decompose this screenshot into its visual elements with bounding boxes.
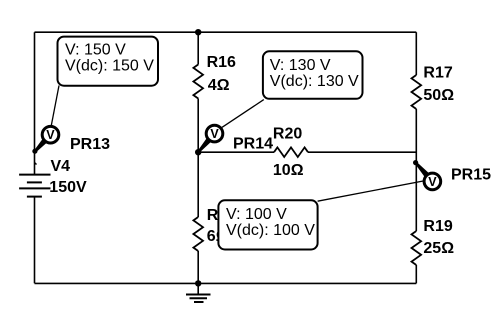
svg-text:V(dc): 150 V: V(dc): 150 V [65, 58, 154, 75]
svg-text:V: V [46, 128, 55, 142]
annotation box PR15 (100 V) [218, 200, 317, 249]
wire left vertical lower (battery to bottom) [34, 197, 36, 284]
junction top-center [195, 29, 201, 35]
svg-text:50Ω: 50Ω [423, 87, 454, 104]
svg-text:V: 150 V: V: 150 V [65, 42, 126, 59]
ground [186, 283, 211, 302]
svg-text:R16: R16 [207, 54, 236, 71]
svg-text:R17: R17 [423, 65, 452, 82]
junction bottom-center [195, 280, 201, 286]
wire left vertical upper (to battery) [34, 32, 36, 174]
resistor R19 [412, 231, 422, 265]
leader line to annotation box PR14 [222, 100, 264, 128]
svg-text:25Ω: 25Ω [423, 240, 454, 257]
svg-text:150V: 150V [49, 179, 87, 196]
wire middle vertical: R18 to bottom junction [197, 251, 199, 283]
leader line to annotation box PR13 [51, 86, 59, 126]
probe PR13 [32, 126, 59, 153]
svg-text:V(dc): 130 V: V(dc): 130 V [270, 73, 359, 90]
svg-text:R19: R19 [423, 218, 452, 235]
annotation box PR14 (130 V) [263, 51, 363, 99]
wire middle horizontal right segment [308, 151, 416, 153]
svg-text:10Ω: 10Ω [273, 162, 304, 179]
junction middle (PR14 tip) [195, 149, 201, 155]
leader line to annotation box PR15 [318, 181, 424, 201]
wire right vertical: R17 to R19 [415, 109, 417, 231]
svg-text:V: 130 V: V: 130 V [270, 57, 331, 74]
wire middle horizontal left segment [198, 151, 274, 153]
wire middle vertical: R16 to middle junction [197, 99, 199, 153]
svg-text:V: V [428, 175, 437, 189]
wire right vertical: R19 to bottom [415, 265, 417, 283]
svg-text:V4: V4 [51, 158, 71, 175]
battery V4 [19, 163, 50, 197]
resistor R16 [193, 65, 203, 99]
svg-text:PR15: PR15 [451, 166, 491, 183]
resistor R18 [193, 217, 203, 251]
svg-text:V: V [210, 127, 219, 141]
svg-text:R20: R20 [273, 126, 302, 143]
probe PR15 [413, 160, 441, 190]
wire bottom horizontal [35, 282, 417, 284]
wire middle vertical: top junction to R16 [197, 32, 199, 64]
svg-text:PR13: PR13 [70, 136, 110, 153]
probe PR14 [197, 125, 223, 153]
svg-text:V(dc): 100 V: V(dc): 100 V [226, 222, 315, 239]
wire middle vertical: middle junction to R18 [197, 152, 199, 217]
resistor R17 [412, 75, 422, 109]
wire top horizontal [35, 31, 417, 33]
resistor R20 [274, 147, 308, 157]
wire right vertical: top to R17 [415, 32, 417, 75]
svg-text:V: 100 V: V: 100 V [226, 206, 287, 223]
annotation box PR13 (150 V) [58, 37, 159, 86]
svg-text:4Ω: 4Ω [208, 77, 230, 94]
svg-text:PR14: PR14 [233, 135, 273, 152]
